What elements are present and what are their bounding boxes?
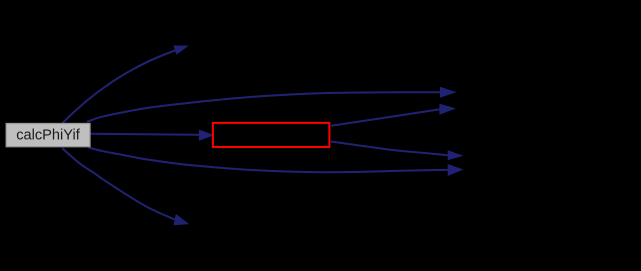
wire: edge red node to right target A [331, 109, 439, 125]
arrowhead: lower-right edge [448, 164, 464, 176]
wire: edge calcPhiYif to red node [90, 134, 200, 135]
node: truncated node (red box) [213, 123, 330, 147]
wire: edge calcPhiYif to top-left target [63, 51, 176, 124]
node calcPhiYif (current node, grey box) [6, 124, 90, 147]
wire: edge calcPhiYif to lower-right target [89, 148, 448, 173]
arrowhead: upper-right edge [440, 87, 457, 98]
wire: edge red node to right target B [331, 142, 448, 156]
arrowhead: red node lower edge [448, 150, 464, 160]
arrowhead: top-left edge [173, 46, 189, 55]
arrowhead: red node upper edge [439, 104, 456, 115]
arrowhead: into red node [199, 130, 215, 141]
svg-text:calcPhiYif: calcPhiYif [16, 127, 80, 143]
wire: edge calcPhiYif to upper-right target [87, 92, 440, 122]
wire: edge calcPhiYif to bottom-left target [62, 148, 175, 219]
arrowhead: bottom-left edge [174, 214, 190, 225]
